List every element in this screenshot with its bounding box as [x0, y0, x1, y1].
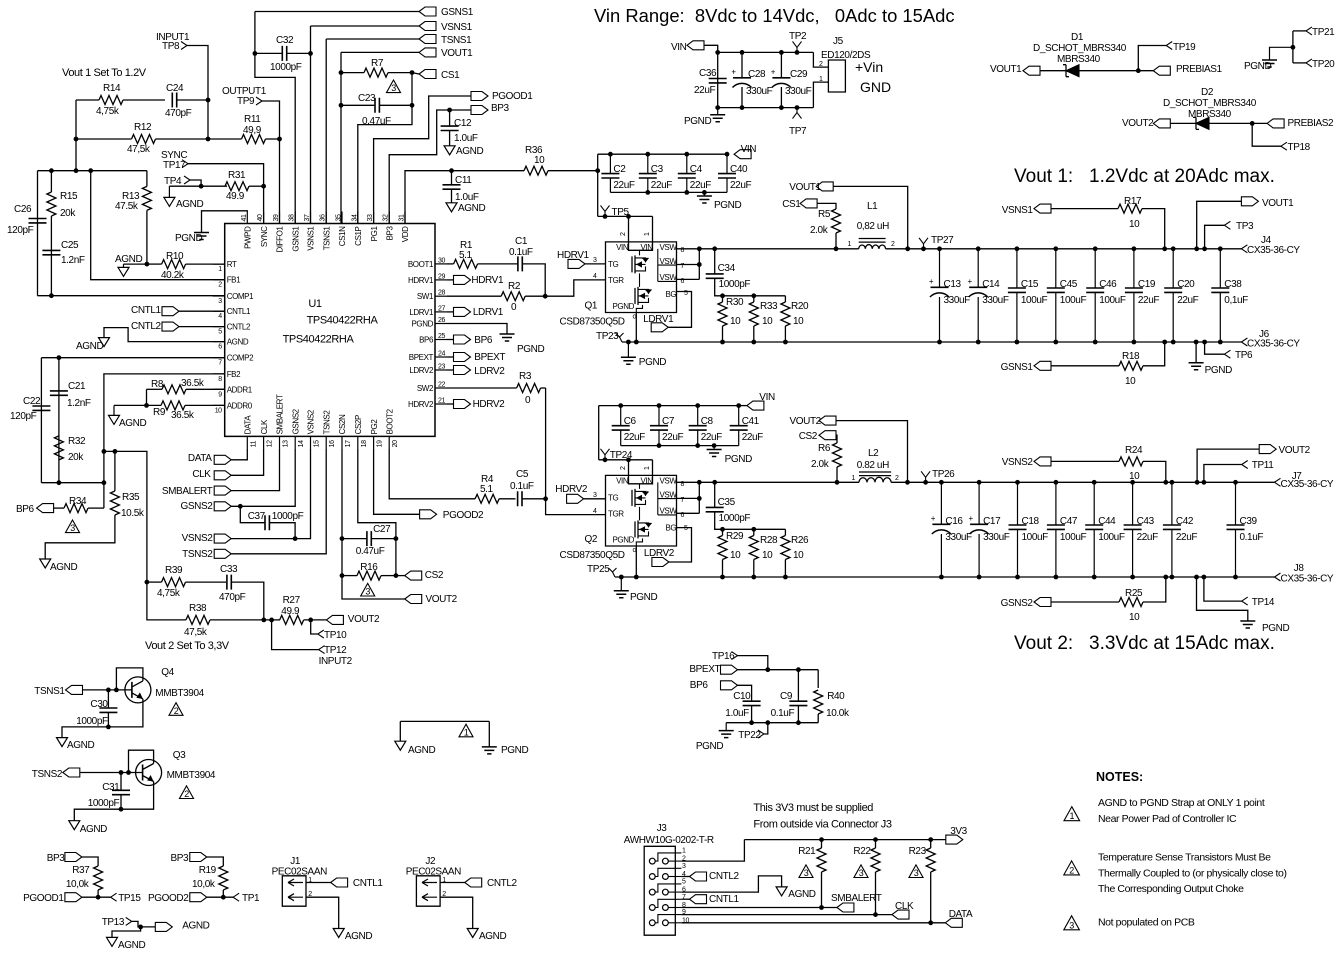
- svg-text:BG: BG: [666, 290, 677, 299]
- svg-text:AGND: AGND: [182, 921, 209, 932]
- svg-text:TP11: TP11: [1252, 460, 1274, 471]
- svg-text:VOUT1: VOUT1: [441, 48, 473, 59]
- svg-text:5: 5: [684, 525, 688, 532]
- svg-text:AGND: AGND: [67, 740, 94, 751]
- wire R20 top lead: [784, 296, 786, 302]
- J3 pin circle row 4 left: [649, 905, 655, 911]
- svg-text:BP6: BP6: [419, 336, 434, 345]
- svg-text:AGND: AGND: [50, 562, 77, 573]
- svg-text:TSNS2: TSNS2: [32, 769, 63, 780]
- wire R35 bottom to AGND: [45, 515, 115, 559]
- port TSNS1 flag: [419, 35, 436, 44]
- capacitor C47: [1055, 482, 1057, 577]
- wire R14 left lead: [76, 99, 99, 101]
- J3 odd pin 3 hook: [655, 868, 681, 876]
- svg-text:L1: L1: [867, 201, 878, 212]
- junction VSW tie top: [697, 246, 702, 251]
- svg-text:20k: 20k: [68, 452, 84, 463]
- svg-text:10: 10: [1129, 612, 1140, 623]
- wire TP18 branch: [1252, 123, 1281, 146]
- svg-text:VOUT2: VOUT2: [348, 614, 380, 625]
- wire C9 bottom lead: [797, 706, 799, 723]
- wire to TP20: [1293, 62, 1306, 64]
- svg-text:10: 10: [762, 316, 773, 327]
- svg-text:AGND: AGND: [458, 203, 485, 214]
- svg-text:CSD87350Q5D: CSD87350Q5D: [560, 317, 625, 328]
- svg-text:J5: J5: [833, 36, 844, 47]
- U1 pin 24 BPEXT (right): [435, 356, 447, 358]
- svg-text:LDRV2: LDRV2: [409, 366, 434, 375]
- svg-text:From outside via Connector J3: From outside via Connector J3: [753, 819, 891, 831]
- junction bank2 top: [939, 480, 944, 485]
- svg-text:+: +: [968, 277, 973, 286]
- svg-text:3: 3: [804, 868, 809, 878]
- wire R5 bottom lead: [835, 233, 837, 249]
- wire R16 left lead: [342, 575, 357, 577]
- wire COMP2 pin 7 net: [41, 357, 224, 359]
- port GSNS1 sense flag: [1034, 361, 1051, 370]
- svg-text:R8: R8: [151, 379, 164, 390]
- Q1 VSW pin cell dividers: [658, 249, 677, 282]
- wire RT AGND side: [124, 263, 147, 265]
- wire C37 left: [240, 506, 264, 522]
- wire to VOUT2 flag fb2: [342, 576, 405, 599]
- wire C36 vertical: [717, 52, 719, 107]
- svg-text:BP6: BP6: [474, 335, 493, 346]
- svg-text:LDRV1: LDRV1: [409, 308, 434, 317]
- ground AGND below TP4: [168, 186, 170, 197]
- svg-text:19: 19: [377, 440, 384, 447]
- testpoint TP25: [609, 568, 617, 577]
- junction bank2 top: [736, 403, 741, 408]
- resistor R12: [132, 135, 156, 144]
- wire C6 bank bottom rail: [621, 445, 739, 447]
- resistor R6: [833, 443, 842, 467]
- svg-text:R14: R14: [103, 83, 121, 94]
- svg-text:49.9: 49.9: [226, 191, 245, 202]
- wire C23 left lead: [341, 104, 375, 106]
- Q1 bottom MOSFET: [634, 288, 636, 304]
- wire C28 top lead: [741, 52, 743, 78]
- svg-text:C46: C46: [1099, 279, 1117, 290]
- wire R29 bottom lead: [722, 560, 724, 578]
- svg-text:CNTL2: CNTL2: [227, 323, 251, 332]
- junction R21 bottom: [819, 905, 824, 910]
- U1 pin 26 PGND (right): [435, 323, 447, 325]
- svg-text:330uF: 330uF: [785, 86, 812, 97]
- junction R29 top: [720, 527, 725, 532]
- port CNTL2 flag at J2: [465, 878, 482, 887]
- svg-text:1000pF: 1000pF: [270, 62, 302, 73]
- junction VSW tie mid: [697, 262, 702, 267]
- wire R35 top lead: [114, 451, 116, 491]
- inductor L2: [859, 477, 891, 482]
- testpoint TP3 chevron: [1224, 221, 1230, 229]
- wire C27 left lead: [342, 538, 367, 540]
- port LDRV2 input flag: [652, 558, 669, 567]
- svg-text:36.5k: 36.5k: [181, 378, 205, 389]
- svg-text:PG2: PG2: [370, 419, 379, 435]
- wire R7 right lead: [388, 72, 412, 74]
- svg-text:VIN: VIN: [641, 243, 654, 252]
- ground AGND at RT: [118, 267, 129, 276]
- junction C5/R3/TGR2: [543, 496, 548, 501]
- wire pin21 to flag: [447, 403, 454, 405]
- svg-text:CS1: CS1: [782, 199, 801, 210]
- capacitor C5: [518, 491, 522, 506]
- capacitor C23: [375, 98, 379, 113]
- svg-text:C45: C45: [1060, 279, 1078, 290]
- resistor R17: [1118, 204, 1142, 213]
- svg-text:AGND: AGND: [115, 254, 142, 265]
- svg-text:14: 14: [298, 440, 305, 447]
- U1 pin 3 COMP1 (left): [213, 295, 225, 297]
- svg-text:12: 12: [267, 440, 274, 447]
- svg-text:C6: C6: [624, 416, 637, 427]
- U1 pin 2 FB1 (left): [213, 279, 225, 281]
- wire R9 left lead: [114, 404, 161, 406]
- svg-text:CS1N: CS1N: [338, 226, 347, 246]
- svg-text:C44: C44: [1098, 516, 1116, 527]
- note triangle 2 at Q3: [179, 786, 193, 799]
- svg-text:ADDR1: ADDR1: [227, 385, 253, 394]
- note triangle 1: [1064, 807, 1080, 821]
- ground AGND at J2: [467, 929, 478, 938]
- svg-text:GSNS2: GSNS2: [180, 501, 213, 512]
- wire GSNS1 to R18: [1051, 365, 1119, 367]
- port PGOOD2 flag: [420, 510, 437, 519]
- port AGND flag: [155, 922, 172, 931]
- wire R31 right lead: [249, 185, 264, 187]
- wire left divider vertical: [75, 100, 77, 171]
- svg-text:RT: RT: [227, 260, 237, 269]
- svg-text:40.2k: 40.2k: [161, 270, 185, 281]
- ground AGND at Q3: [69, 821, 80, 830]
- capacitor C10: [743, 701, 761, 705]
- resistor R39: [162, 578, 186, 587]
- junction input rail bottom: [740, 105, 745, 110]
- svg-text:22uF: 22uF: [662, 432, 683, 443]
- svg-text:10: 10: [534, 155, 545, 166]
- svg-text:Q3: Q3: [173, 750, 186, 761]
- svg-text:C8: C8: [701, 416, 714, 427]
- junction bank2 top: [1015, 480, 1020, 485]
- testpoint TP22 chevron: [758, 730, 764, 738]
- junction Q3 loop: [126, 770, 131, 775]
- junction bank1 top: [1171, 246, 1176, 251]
- svg-text:26: 26: [438, 317, 445, 324]
- wire Q3 emitter to AGND: [74, 782, 153, 821]
- svg-text:4: 4: [593, 508, 597, 515]
- junction Q4 loop: [114, 688, 119, 693]
- resistor R36: [524, 166, 548, 175]
- wire VSNS2 to R24: [1051, 460, 1119, 462]
- junction R7 right: [410, 70, 415, 75]
- J3 pin circle row 4 right: [663, 905, 669, 911]
- svg-text:J3: J3: [657, 823, 668, 834]
- wire TP19 branch: [1138, 46, 1166, 71]
- svg-text:TP14: TP14: [1252, 597, 1275, 608]
- svg-text:BOOT1: BOOT1: [408, 260, 434, 269]
- junction R29 bottom: [720, 575, 725, 580]
- junction input rail bottom: [715, 105, 720, 110]
- port PREBIAS2 flag: [1267, 119, 1284, 128]
- svg-text:C13: C13: [944, 279, 962, 290]
- U1 pin 30 BOOT1 (right): [435, 263, 447, 265]
- junction PGND drop: [1194, 340, 1199, 345]
- junction riser corner Q2: [626, 457, 631, 462]
- port CNTL2 flag at J3: [690, 872, 707, 881]
- wire Q2 PGND pin drop: [635, 546, 637, 577]
- svg-text:DIFFO1: DIFFO1: [276, 226, 285, 253]
- ground AGND below C12: [444, 146, 455, 155]
- note triangle 1 strap: [459, 724, 473, 737]
- capacitor C24: [172, 93, 176, 108]
- wire C2 bank bottom rail: [610, 191, 727, 193]
- svg-text:This 3V3 must be supplied: This 3V3 must be supplied: [753, 802, 873, 814]
- junction bank1 bottom: [1171, 340, 1176, 345]
- junction C23 left: [339, 103, 344, 108]
- resistor R27: [280, 615, 304, 624]
- svg-text:27: 27: [438, 305, 445, 312]
- wire DATA to pin 11: [231, 448, 247, 459]
- capacitor C16: [940, 482, 942, 577]
- svg-text:TP6: TP6: [1235, 350, 1253, 361]
- connector J4 flag: [1241, 245, 1247, 253]
- capacitor C33: [227, 575, 231, 590]
- wire VIN flag stage2 lead: [739, 405, 747, 407]
- junction R22 bottom: [873, 912, 878, 917]
- note triangle 3: [1064, 916, 1080, 930]
- testpoint TP24: [601, 449, 610, 460]
- svg-text:C36: C36: [699, 68, 717, 79]
- wire SW2 rail right of L2: [891, 481, 1274, 483]
- resistor R25: [1119, 598, 1143, 607]
- svg-text:330uF: 330uF: [982, 295, 1009, 306]
- J3 pin circle row 3 right: [663, 889, 669, 895]
- junction bank bottom: [645, 190, 650, 195]
- svg-text:LDRV2: LDRV2: [474, 366, 505, 377]
- junction R33 top: [751, 293, 756, 298]
- resistor R24: [1119, 457, 1143, 466]
- wire BP6 to C10: [738, 685, 752, 701]
- wire D1 net: [1040, 70, 1153, 72]
- svg-text:TGR: TGR: [608, 276, 624, 285]
- wire CLK to pin 12: [231, 448, 263, 475]
- wire R12 right lead: [156, 138, 209, 140]
- wire Q2 BG to LDRV2: [669, 528, 692, 562]
- wire C10 bottom lead: [751, 706, 753, 723]
- svg-text:PREBIAS1: PREBIAS1: [1176, 64, 1223, 75]
- junction R23 top: [928, 837, 933, 842]
- svg-text:J1: J1: [290, 856, 301, 867]
- U1 pin 4 CNTL1 (left): [213, 310, 225, 312]
- svg-text:0.47uF: 0.47uF: [362, 116, 391, 127]
- junction C27 left: [340, 536, 345, 541]
- svg-text:1: 1: [852, 475, 856, 482]
- svg-text:C3: C3: [651, 164, 664, 175]
- svg-text:CX35-36-CY: CX35-36-CY: [1247, 245, 1300, 256]
- J3 pin circle row 5 right: [663, 920, 669, 926]
- svg-text:TP4: TP4: [164, 176, 182, 187]
- svg-text:DATA: DATA: [244, 415, 253, 435]
- wire J5 pin 2: [813, 52, 828, 67]
- svg-text:VOUT1: VOUT1: [1262, 198, 1294, 209]
- port VOUT1 sense flag: [816, 182, 833, 191]
- svg-text:TP20: TP20: [1312, 59, 1335, 70]
- resistor R31: [225, 182, 249, 191]
- svg-text:TP25: TP25: [587, 564, 610, 575]
- svg-text:VSW: VSW: [660, 476, 678, 485]
- junction TP16: [765, 667, 770, 672]
- wire R4 to C5: [499, 498, 515, 500]
- svg-text:330uF: 330uF: [746, 86, 773, 97]
- svg-text:C15: C15: [1021, 279, 1039, 290]
- testpoint TP1 chevron: [233, 893, 239, 901]
- port BPEXT flag: [721, 665, 738, 674]
- svg-text:TP9: TP9: [237, 96, 255, 107]
- wire TP20/TP21 vertical: [1292, 31, 1294, 63]
- svg-text:VIN: VIN: [641, 476, 654, 485]
- svg-text:C26: C26: [14, 204, 32, 215]
- wire Q3 collector loop: [129, 750, 154, 772]
- junction R11/TP9/DIFFO1: [277, 137, 282, 142]
- wire PGND drop bank2: [1197, 577, 1248, 621]
- ground PGND below C8: [713, 446, 715, 450]
- wire VSNS1 horizontal: [311, 25, 420, 27]
- svg-text:TP19: TP19: [1173, 42, 1196, 53]
- svg-text:C32: C32: [276, 35, 294, 46]
- capacitor C18: [1017, 482, 1019, 577]
- ground AGND at pin 6: [99, 338, 110, 347]
- svg-text:BPEXT: BPEXT: [474, 352, 505, 363]
- svg-text:C29: C29: [790, 69, 808, 80]
- junction bank top: [608, 152, 613, 157]
- wire TP14 to rail: [1204, 577, 1242, 601]
- wire R10 left lead: [147, 263, 162, 265]
- junction TP20/TP21: [1291, 45, 1296, 50]
- wire R20 bottom lead: [784, 326, 786, 342]
- wire PG2 pin19 to PGOOD2: [374, 448, 420, 514]
- svg-text:2.0k: 2.0k: [811, 459, 830, 470]
- svg-text:AGND to PGND Strap at ONLY 1 p: AGND to PGND Strap at ONLY 1 point: [1098, 797, 1265, 809]
- junction C37/VSNS2: [293, 536, 298, 541]
- svg-text:C16: C16: [945, 516, 963, 527]
- svg-text:CS1: CS1: [441, 70, 460, 81]
- U1 pin 39 DIFFO1 (top): [279, 212, 281, 224]
- junction bank1 top: [937, 246, 942, 251]
- junction bank1 bottom: [1093, 340, 1098, 345]
- svg-text:R9: R9: [153, 407, 166, 418]
- junction PGND bank1: [702, 190, 707, 195]
- svg-text:2: 2: [174, 706, 179, 716]
- junction C24 right: [206, 98, 211, 103]
- svg-text:22: 22: [438, 382, 445, 389]
- svg-text:+Vin: +Vin: [855, 59, 883, 75]
- junction C37 tap: [238, 504, 243, 509]
- capacitor C8: [697, 406, 699, 446]
- svg-text:1: 1: [848, 241, 852, 248]
- wire VOUT1 horizontal: [341, 51, 419, 53]
- wire Q1 BG to LDRV1: [668, 292, 691, 328]
- resistor R20: [781, 302, 790, 326]
- wire VDD pin31 to R36: [405, 171, 524, 224]
- J2 pin 1 arrow: [422, 879, 437, 886]
- U1 pin 31 VDD (top): [404, 212, 406, 224]
- wire C23 right lead: [380, 104, 413, 106]
- Q1 top MOSFET: [631, 256, 633, 272]
- J3 odd pin 7 hook: [655, 899, 681, 907]
- svg-text:L2: L2: [868, 448, 879, 459]
- J3 odd pin 1 hook: [655, 853, 681, 861]
- capacitor C17: [978, 482, 980, 577]
- svg-text:Thermally Coupled to (or physi: Thermally Coupled to (or physically clos…: [1098, 867, 1287, 879]
- port BP3 flag top: [471, 106, 488, 115]
- svg-text:C19: C19: [1138, 279, 1156, 290]
- note triangle 3 at R23: [909, 865, 923, 878]
- wire J3 pin9 CLK: [681, 914, 892, 916]
- svg-text:VOUT2: VOUT2: [1122, 118, 1154, 129]
- wire pin24 to flag: [447, 356, 454, 358]
- junction C30 bottom: [106, 725, 111, 730]
- wire R3 to C5 node vertical: [545, 388, 547, 499]
- port HDRV1 flag at pin 29: [454, 275, 471, 284]
- junction TP27: [921, 246, 926, 251]
- capacitor C46: [1094, 249, 1096, 342]
- testpoint TP8 chevron: [181, 42, 187, 50]
- U1 pin 11 DATA (bottom): [246, 436, 248, 448]
- svg-text:17: 17: [345, 440, 352, 447]
- wire CNTL2 to pin 5: [179, 326, 225, 328]
- port BP6 flag: [37, 504, 54, 513]
- wire pin29 to flag: [447, 279, 454, 281]
- svg-text:TP27: TP27: [931, 235, 954, 246]
- testpoint TP16 chevron: [732, 652, 738, 660]
- J3 even pin 10 stub: [668, 922, 681, 924]
- svg-text:VSNS1: VSNS1: [307, 226, 316, 251]
- capacitor C37: [265, 515, 269, 530]
- J1 pin 1 arrow: [288, 879, 303, 886]
- svg-text:1.2nF: 1.2nF: [67, 398, 91, 409]
- svg-text:Vin Range: 8Vdc to 14Vdc, 0: Vin Range: 8Vdc to 14Vdc, 0Adc to 15Adc: [594, 5, 955, 26]
- junction input rail top: [795, 50, 800, 55]
- svg-text:C38: C38: [1224, 279, 1242, 290]
- testpoint TP6 chevron: [1224, 350, 1230, 358]
- wire VOUT2 flag to rail: [1197, 449, 1259, 482]
- wire FB1 pin 2 net: [91, 171, 225, 280]
- svg-text:Q2: Q2: [585, 534, 598, 545]
- wire C22 vertical: [40, 358, 42, 483]
- svg-text:PGND: PGND: [630, 592, 657, 603]
- svg-text:C43: C43: [1137, 516, 1155, 527]
- svg-text:AGND: AGND: [80, 824, 107, 835]
- svg-text:TSNS1: TSNS1: [322, 226, 331, 251]
- svg-text:NOTES:: NOTES:: [1096, 770, 1143, 784]
- inductor L1: [859, 245, 886, 249]
- wire TP13 to AGND flag: [132, 921, 156, 927]
- svg-text:+: +: [931, 514, 936, 523]
- svg-text:+: +: [968, 514, 973, 523]
- svg-text:LDRV1: LDRV1: [643, 314, 674, 325]
- svg-text:PREBIAS2: PREBIAS2: [1288, 118, 1335, 129]
- U1 pin 41 PWPD (top): [246, 212, 248, 224]
- junction bank1 top: [1093, 246, 1098, 251]
- wire R30 top lead: [722, 296, 724, 302]
- resistor R28: [749, 536, 758, 560]
- svg-text:PGND: PGND: [175, 233, 202, 244]
- junction bank1 bottom: [1015, 340, 1020, 345]
- wire top AGND-side rail: [38, 170, 147, 172]
